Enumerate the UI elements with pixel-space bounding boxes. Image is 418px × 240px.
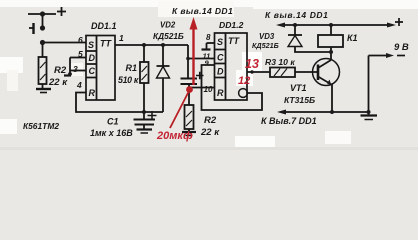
svg-text:R3 10 к: R3 10 к <box>265 57 295 67</box>
svg-text:S: S <box>217 37 223 47</box>
svg-text:TT: TT <box>100 39 112 49</box>
svg-text:C: C <box>217 53 224 63</box>
svg-text:VT1: VT1 <box>290 83 307 93</box>
svg-text:К Выв.7 DD1: К Выв.7 DD1 <box>261 116 317 126</box>
svg-text:20мкф: 20мкф <box>156 130 193 142</box>
svg-text:22 к: 22 к <box>200 127 220 138</box>
svg-text:DD1.2: DD1.2 <box>219 20 244 30</box>
svg-text:R2: R2 <box>54 65 67 76</box>
svg-text:510 к: 510 к <box>118 75 139 85</box>
svg-text:TT: TT <box>228 36 240 46</box>
svg-text:5: 5 <box>78 49 83 59</box>
svg-text:R2: R2 <box>204 115 217 126</box>
svg-text:К выв.14 DD1: К выв.14 DD1 <box>172 6 233 16</box>
svg-text:C: C <box>89 66 96 76</box>
svg-text:4: 4 <box>76 80 82 90</box>
svg-text:S: S <box>88 40 94 50</box>
svg-text:С1: С1 <box>107 117 119 127</box>
svg-text:D: D <box>217 67 224 77</box>
svg-text:6: 6 <box>78 35 83 45</box>
svg-text:1: 1 <box>119 33 124 43</box>
svg-text:КД521Б: КД521Б <box>153 31 184 41</box>
svg-text:VD3: VD3 <box>259 32 275 41</box>
svg-text:К1: К1 <box>347 33 358 43</box>
svg-text:КТ315Б: КТ315Б <box>284 95 315 105</box>
svg-text:13: 13 <box>245 57 259 71</box>
svg-text:DD1.1: DD1.1 <box>91 21 117 31</box>
svg-text:22 к: 22 к <box>48 77 68 88</box>
svg-text:1мк х 16В: 1мк х 16В <box>90 128 133 138</box>
svg-text:10: 10 <box>204 85 214 94</box>
svg-text:R1: R1 <box>126 63 138 73</box>
svg-text:3: 3 <box>73 64 78 74</box>
svg-text:8: 8 <box>206 33 211 42</box>
svg-text:VD2: VD2 <box>160 21 176 30</box>
svg-text:К561ТМ2: К561ТМ2 <box>23 121 59 131</box>
svg-text:9 В: 9 В <box>394 42 409 53</box>
svg-text:12: 12 <box>238 75 250 87</box>
svg-text:R: R <box>217 88 224 98</box>
svg-text:R: R <box>89 88 96 98</box>
svg-text:D: D <box>89 53 96 63</box>
svg-text:К выв.14 DD1: К выв.14 DD1 <box>265 10 329 20</box>
svg-text:КД521Б: КД521Б <box>252 41 279 50</box>
